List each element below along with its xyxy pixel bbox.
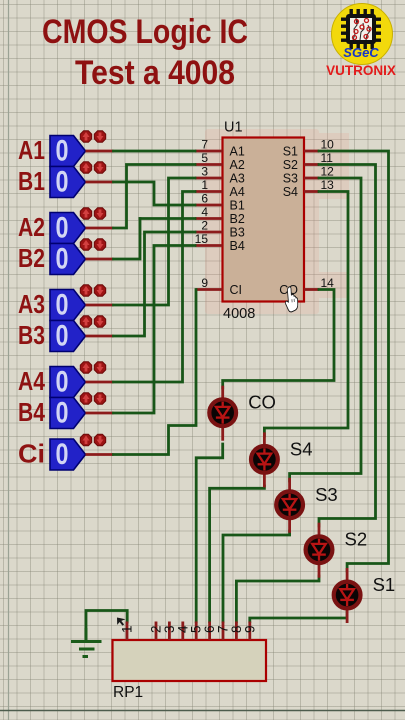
RP1 pin 3 stub — [168, 622, 171, 641]
svg-text:S1: S1 — [373, 574, 396, 595]
svg-text:A3: A3 — [18, 289, 45, 319]
wire net A2 to pin5 — [114, 165, 196, 229]
wire net S4 pin13 to LED — [264, 192, 348, 437]
logicstate toggle A3 — [50, 289, 86, 322]
toggle A2 down button — [94, 208, 105, 219]
wire net A4 to pin1 — [114, 192, 196, 383]
sheet border left — [8, 0, 10, 720]
LED S1 anode stub — [346, 568, 349, 582]
toggle A3 output stub — [86, 304, 114, 307]
svg-text:Test a 4008: Test a 4008 — [75, 54, 235, 92]
wire net Ci to pin9 — [114, 290, 197, 455]
logicstate toggle B3 — [50, 320, 86, 353]
svg-text:10: 10 — [321, 138, 335, 152]
sheet border bottom — [0, 710, 405, 712]
svg-text:B2: B2 — [230, 212, 245, 226]
toggle B2 up button — [80, 239, 91, 250]
svg-text:14: 14 — [321, 276, 335, 290]
ground symbol — [71, 628, 102, 657]
IC U1 4008 body — [223, 138, 305, 302]
LED CO — [209, 399, 236, 426]
logicstate toggle Ci — [50, 438, 86, 471]
svg-text:0: 0 — [56, 243, 69, 276]
svg-text:S2: S2 — [283, 158, 298, 172]
svg-text:A4: A4 — [230, 185, 245, 199]
svg-text:1: 1 — [201, 178, 208, 192]
svg-text:VUTRONIX: VUTRONIX — [326, 63, 396, 78]
toggle A1 output stub — [86, 150, 114, 153]
toggle B3 output stub — [86, 335, 114, 338]
svg-text:B1: B1 — [18, 166, 45, 196]
RP1 pin 9 stub — [248, 622, 251, 641]
wire net S3 pin12 to LED — [290, 178, 361, 481]
U1 pin 5 (A2) stub — [195, 163, 223, 166]
svg-text:A2: A2 — [230, 158, 245, 172]
svg-text:0: 0 — [56, 289, 69, 322]
wire net B2 to pin4 — [114, 219, 141, 260]
LED S3 anode stub — [288, 478, 291, 492]
logicstate toggle A2 — [50, 212, 86, 245]
U1 pin 10 (S1) stub — [304, 150, 319, 153]
svg-text:B1: B1 — [230, 199, 245, 213]
svg-text:B2: B2 — [18, 243, 45, 273]
LED S4 — [251, 446, 278, 473]
svg-text:A2: A2 — [18, 212, 45, 242]
svg-text:4008: 4008 — [223, 306, 255, 322]
svg-text:0: 0 — [56, 135, 69, 168]
toggle B1 down button — [94, 162, 105, 173]
svg-text:0: 0 — [56, 366, 69, 399]
svg-text:CI: CI — [230, 283, 243, 297]
svg-text:CO: CO — [248, 392, 276, 413]
wire net A1 to pin7 — [114, 150, 196, 153]
svg-text:S4: S4 — [290, 438, 313, 459]
wire net LED S4 to RP1 pin6 — [210, 486, 265, 622]
svg-text:11: 11 — [321, 151, 334, 165]
svg-text:S3: S3 — [283, 172, 298, 186]
svg-text:B4: B4 — [18, 397, 45, 427]
logicstate toggle B1 — [50, 166, 86, 199]
svg-text:13: 13 — [321, 178, 335, 192]
svg-text:0: 0 — [56, 438, 69, 471]
LED S3 — [276, 491, 303, 518]
wire net B1 to pin6 — [114, 182, 196, 205]
logicstate toggle A4 — [50, 366, 86, 399]
svg-text:A1: A1 — [18, 135, 45, 165]
toggle B1 up button — [80, 162, 91, 173]
LED S1 cathode stub — [346, 608, 349, 623]
logo badge circle — [332, 4, 393, 65]
svg-text:0: 0 — [56, 397, 69, 430]
small cursor artifact near ground — [117, 618, 126, 626]
LED S4 anode stub — [263, 432, 266, 446]
toggle A4 down button — [94, 362, 105, 373]
toggle A4 up button — [80, 362, 91, 373]
svg-text:B4: B4 — [230, 239, 245, 253]
U1 pin 13 (S4) stub — [304, 190, 319, 193]
LED S2 cathode stub — [318, 563, 321, 578]
svg-text:0: 0 — [56, 320, 69, 353]
svg-text:0: 0 — [56, 212, 69, 245]
LED S4 cathode stub — [263, 472, 266, 487]
svg-text:3: 3 — [201, 165, 208, 179]
U1 pin 15 (B4) stub — [195, 244, 223, 247]
toggle A3 down button — [94, 285, 105, 296]
svg-text:4: 4 — [201, 205, 208, 219]
toggle B3 down button — [94, 316, 105, 327]
U1 pin 3 (A3) stub — [195, 177, 223, 180]
wire net S2 pin11 to LED — [319, 165, 376, 527]
U1 pin 1 (A4) stub — [195, 190, 223, 193]
svg-text:9: 9 — [201, 276, 208, 290]
toggle B4 down button — [94, 393, 105, 404]
svg-text:Ci: Ci — [18, 439, 45, 469]
U1 selection halo — [205, 129, 349, 314]
RP1 pin 7 stub — [222, 622, 225, 641]
wire net A3 to pin3 — [114, 178, 196, 305]
svg-text:0: 0 — [56, 166, 69, 199]
wire net B3 to pin2 — [114, 232, 196, 336]
wire net ground to RP1 pin1 — [86, 611, 127, 642]
svg-text:15: 15 — [195, 232, 209, 246]
toggle Ci up button — [80, 434, 91, 445]
toggle B3 up button — [80, 316, 91, 327]
svg-text:7: 7 — [201, 138, 208, 152]
U1 pin 11 (S2) stub — [304, 163, 319, 166]
wire net LED S3 to RP1 pin7 — [223, 531, 290, 622]
LED S2 — [306, 536, 333, 563]
resistor pack RP1 body — [113, 640, 267, 681]
U1 pin 9 (CI) stub — [196, 288, 223, 291]
svg-text:B3: B3 — [230, 226, 245, 240]
svg-text:6: 6 — [201, 192, 208, 206]
svg-text:9: 9 — [242, 625, 257, 633]
LED CO cathode stub — [221, 426, 224, 441]
svg-text:B3: B3 — [18, 320, 45, 350]
svg-text:A1: A1 — [230, 145, 245, 159]
toggle B1 output stub — [86, 181, 114, 184]
logicstate toggle B4 — [50, 397, 86, 430]
LED CO anode stub — [221, 386, 224, 400]
toggle A1 down button — [94, 131, 105, 142]
toggle Ci output stub — [86, 453, 114, 456]
U1 pin 14 (CO) stub — [304, 288, 319, 291]
svg-text:S4: S4 — [283, 185, 298, 199]
U1 pin 2 (B3) stub — [195, 231, 223, 234]
svg-text:12: 12 — [321, 165, 335, 179]
svg-text:RP1: RP1 — [113, 684, 143, 701]
toggle A2 output stub — [86, 227, 114, 230]
toggle A3 up button — [80, 285, 91, 296]
svg-text:S2: S2 — [345, 529, 368, 550]
wire net CO pin14 to LED — [223, 290, 334, 389]
toggle B2 down button — [94, 239, 105, 250]
toggle Ci down button — [94, 434, 105, 445]
LED S1 — [334, 582, 361, 609]
toggle A2 up button — [80, 208, 91, 219]
svg-text:U1: U1 — [224, 120, 243, 136]
svg-text:CMOS Logic IC: CMOS Logic IC — [42, 13, 248, 51]
logicstate toggle B2 — [50, 243, 86, 276]
wire net B4 to pin15 — [114, 246, 196, 414]
toggle B4 up button — [80, 393, 91, 404]
wire net S1 pin10 to LED — [319, 151, 389, 571]
svg-text:S1: S1 — [283, 145, 298, 159]
logicstate toggle A1 — [50, 135, 86, 168]
wire net LED CO to RP1 pin5 — [196, 444, 223, 622]
RP1 pin 6 stub — [208, 622, 211, 641]
svg-text:SGeC: SGeC — [343, 45, 379, 60]
toggle B4 output stub — [86, 412, 114, 415]
RP1 pin 8 stub — [235, 622, 238, 641]
LED S2 anode stub — [318, 523, 321, 537]
RP1 pin 2 stub — [155, 622, 158, 641]
wire net B2 to pin4 b — [140, 217, 195, 220]
svg-text:1: 1 — [120, 625, 135, 633]
RP1 pin 1 stub — [126, 622, 129, 641]
RP1 pin 5 stub — [195, 622, 198, 641]
toggle B2 output stub — [86, 258, 114, 261]
mouse hand cursor at CO pin — [284, 287, 300, 313]
RP1 pin 4 stub — [181, 622, 184, 641]
U1 pin 7 (A1) stub — [195, 150, 223, 153]
toggle A4 output stub — [86, 381, 114, 384]
svg-text:5: 5 — [201, 151, 208, 165]
U1 pin 12 (S3) stub — [304, 177, 319, 180]
svg-text:A3: A3 — [230, 172, 245, 186]
wire net LED S1 to RP1 pin9 — [250, 612, 347, 622]
svg-text:2: 2 — [201, 219, 208, 233]
wire net LED S2 to RP1 pin8 — [236, 576, 319, 622]
toggle A1 up button — [80, 131, 91, 142]
svg-text:S3: S3 — [315, 484, 338, 505]
svg-text:A4: A4 — [18, 366, 45, 396]
LED S3 cathode stub — [288, 518, 291, 533]
U1 pin 4 (B2) stub — [195, 217, 223, 220]
U1 pin 6 (B1) stub — [195, 204, 223, 207]
